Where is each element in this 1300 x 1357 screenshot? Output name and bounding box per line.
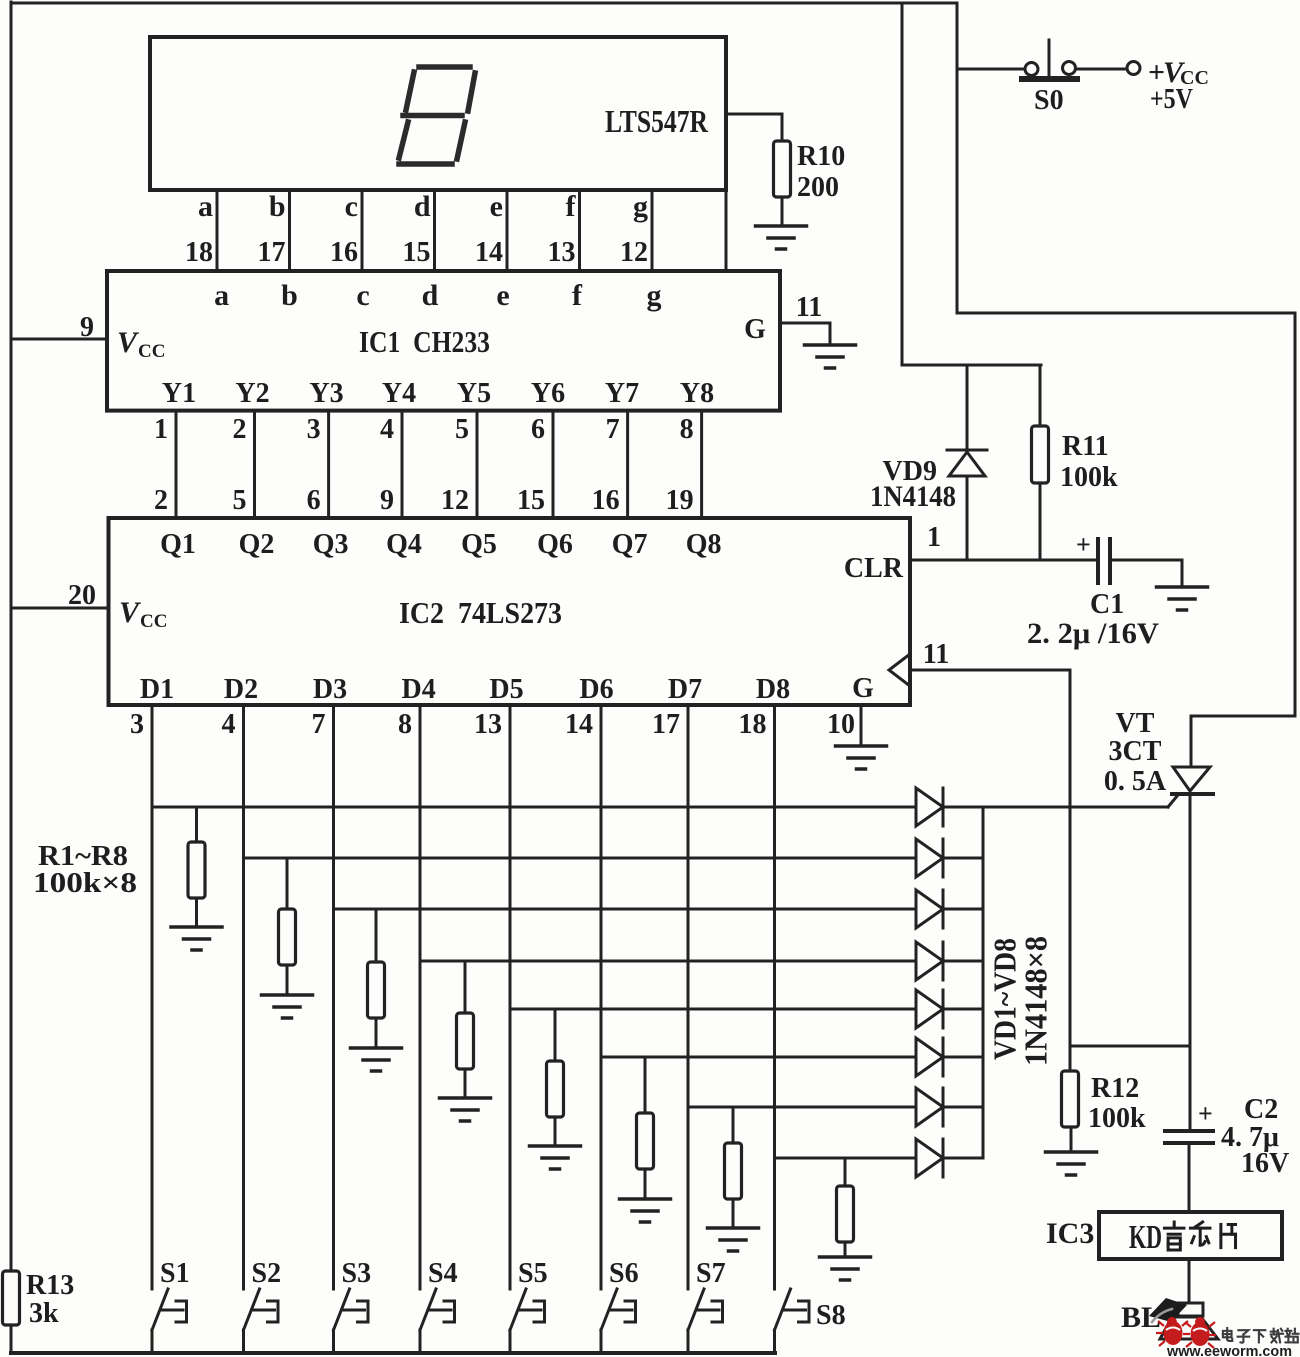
svg-text:g: g [633,190,648,223]
svg-text:Q8: Q8 [686,529,722,560]
wire D5 column [509,705,512,1289]
svg-text:+5V: +5V [1150,83,1193,115]
switch S5 [510,1289,545,1353]
svg-text:R11: R11 [1062,431,1109,462]
svg-text:G: G [852,673,874,704]
svg-text:Y3: Y3 [309,378,343,409]
wire VD8 cathode to bus [943,1157,983,1160]
wire IC2 CLR pin 1 [910,559,1098,562]
capacitor C1 2.2u/16V [1098,539,1182,587]
svg-text:15: 15 [403,237,431,268]
svg-text:d: d [414,190,431,223]
svg-text:13: 13 [548,237,576,268]
svg-text:19: 19 [666,485,694,516]
svg-text:CC: CC [138,341,165,362]
svg-text:V: V [117,326,140,359]
svg-text:S0: S0 [1034,85,1064,116]
op-amp U1 IC1 CH233 box [107,271,780,411]
svg-text:R10: R10 [797,141,845,172]
wire display pin g to IC1 [651,190,654,271]
svg-text:VT: VT [1116,708,1155,739]
resistor R11 100k [1032,365,1049,560]
wire R12 to cathode line [1070,1045,1189,1048]
svg-text:R12: R12 [1091,1073,1139,1104]
7-segment digit 8 [399,67,475,164]
wire VD4 cathode to bus [943,960,983,963]
svg-text:S6: S6 [609,1258,639,1289]
svg-text:16: 16 [330,237,358,268]
wire display pin b to IC1 [288,190,291,271]
wire display pin c to IC1 [361,190,364,271]
svg-text:IC1 CH233: IC1 CH233 [359,324,490,359]
7-segment display LTS547R [150,37,726,190]
svg-text:6: 6 [531,414,545,445]
svg-text:4: 4 [380,414,394,445]
terminal +Vcc [1127,62,1140,75]
transistor VT 3CT 0.5A thyristor [1168,767,1213,807]
watermark logo bugs [1156,1317,1216,1348]
svg-text:b: b [269,190,286,223]
wire VT cathode down to C2 [1189,794,1192,1131]
svg-text:D6: D6 [579,674,613,705]
switch S7 [688,1289,723,1353]
svg-text:R13: R13 [26,1270,74,1301]
wire display pin e to IC1 [506,190,509,271]
switch S6 [601,1289,636,1353]
resistor R12 100k [1062,1071,1079,1152]
ground (R2) [262,995,313,1018]
ground (C1) [1157,587,1208,610]
svg-text:3: 3 [130,709,144,740]
ground (R12) [1046,1152,1097,1175]
svg-text:D1: D1 [140,674,174,705]
svg-text:e: e [496,279,509,312]
IC2 74LS273 box [109,518,911,705]
svg-text:9: 9 [80,312,94,343]
svg-text:Q4: Q4 [386,529,422,560]
svg-text:13: 13 [474,709,502,740]
resistor R10 [726,114,791,226]
svg-text:Y8: Y8 [680,378,714,409]
svg-text:C1: C1 [1090,589,1124,620]
wire D8 column [773,705,776,1289]
wire Y5 to Q5 [476,411,479,518]
switch S4 [420,1289,455,1353]
wire display pin a to IC1 [216,190,219,271]
wire rail 6 to VD6 [601,1056,916,1059]
wire VD7 cathode to bus [943,1106,983,1109]
svg-text:CLR: CLR [844,553,904,584]
svg-text:S5: S5 [518,1258,548,1289]
svg-text:7: 7 [312,709,326,740]
ground (R10) [756,226,807,249]
resistor R13 3k [3,1271,20,1325]
svg-text:14: 14 [475,237,503,268]
wire display common pin [725,190,728,271]
capacitor C2 4.7u 16V [1165,1131,1213,1212]
svg-text:c: c [356,279,369,312]
switch S8 [775,1289,810,1353]
switch S3 [334,1289,369,1353]
svg-text:14: 14 [565,709,593,740]
switch S0 [957,40,1127,79]
svg-text:18: 18 [185,237,213,268]
wire VD6 cathode to bus [943,1056,983,1059]
wire Y8 to Q8 [700,411,703,518]
svg-text:+: + [1076,530,1091,559]
wire IC2 Vcc pin 20 [11,607,109,610]
svg-text:Y1: Y1 [162,378,196,409]
wire diode gate line [943,806,1168,809]
svg-text:12: 12 [441,485,469,516]
svg-text:0. 5A: 0. 5A [1104,766,1167,797]
svg-text:5: 5 [233,485,247,516]
diode VD1 [916,788,943,826]
svg-text:g: g [647,279,662,312]
wire VD5 cathode to bus [943,1008,983,1011]
wire IC1 G pin 11 [780,323,830,345]
wire IC2 pin 10 [860,705,863,746]
svg-text:9: 9 [380,485,394,516]
wire IC1 Vcc pin 9 [11,338,107,341]
svg-text:1N4148×8: 1N4148×8 [1018,936,1054,1066]
svg-text:D8: D8 [756,674,790,705]
switch S1 [152,1289,187,1353]
svg-text:f: f [566,190,577,223]
wire left supply border [10,2,13,1353]
ground (R6) [620,1199,671,1222]
diode VD4 [916,942,943,980]
ground (R4) [440,1098,491,1121]
wire VD3 cathode to bus [943,908,983,911]
wire rail 7 to VD7 [688,1106,916,1109]
resistor R1 [188,807,205,927]
svg-text:Q6: Q6 [537,529,573,560]
svg-text:c: c [345,190,358,223]
svg-text:11: 11 [796,292,822,323]
diode VD8 [916,1139,943,1177]
svg-text:3: 3 [307,414,321,445]
svg-text:V: V [119,596,142,629]
svg-text:S3: S3 [342,1258,372,1289]
svg-text:IC3: IC3 [1046,1217,1094,1250]
svg-text:Y2: Y2 [235,378,269,409]
diode VD3 [916,890,943,928]
wire rail 1 to VD1 [152,806,916,809]
svg-text:20: 20 [68,580,96,611]
wire Y6 to Q6 [552,411,555,518]
wire branch to reset network [902,3,1041,365]
svg-text:100k: 100k [1060,462,1118,493]
svg-text:3CT: 3CT [1109,736,1162,767]
wire D4 column [419,705,422,1289]
IC2 clock pin G triangle [889,654,910,686]
wire rail 8 to VD8 [775,1157,917,1160]
ground (R7) [708,1228,759,1251]
svg-text:a: a [198,190,213,223]
speaker BL [1149,1298,1218,1339]
resistor R5 [547,1009,564,1146]
svg-text:D2: D2 [224,674,258,705]
svg-text:f: f [572,279,583,312]
wire Y3 to Q3 [327,411,330,518]
svg-text:15: 15 [517,485,545,516]
svg-text:www.eeworm.com: www.eeworm.com [1166,1344,1292,1357]
svg-text:1N4148: 1N4148 [870,480,956,513]
svg-text:100k×8: 100k×8 [33,868,137,899]
svg-text:a: a [214,279,229,312]
diode VD7 [916,1088,943,1126]
svg-text:IC2 74LS273: IC2 74LS273 [399,595,562,630]
ground (R5) [530,1146,581,1169]
diode VD2 [916,839,943,877]
svg-text:4: 4 [222,709,236,740]
wire rail 2 to VD2 [244,857,917,860]
svg-text:S1: S1 [160,1258,190,1289]
svg-text:Q2: Q2 [239,529,275,560]
resistor R4 [457,961,474,1098]
svg-text:Y7: Y7 [605,378,639,409]
wire display pin f to IC1 [578,190,581,271]
wire VD2 cathode to bus [943,857,983,860]
ground (R8) [820,1257,871,1280]
resistor R8 [837,1158,854,1257]
svg-text:5: 5 [455,414,469,445]
wire D7 column [687,705,690,1289]
svg-text:1: 1 [154,414,168,445]
wire D2 column [242,705,245,1289]
svg-text:D5: D5 [489,674,523,705]
svg-text:2: 2 [154,485,168,516]
svg-text:S8: S8 [816,1300,846,1331]
svg-text:16V: 16V [1241,1148,1289,1179]
wire right power branch down to S0 net [957,3,1295,767]
wire top supply border [11,2,957,5]
svg-text:BL: BL [1121,1301,1161,1334]
svg-text:6: 6 [307,485,321,516]
svg-text:CC: CC [140,611,167,632]
svg-text:e: e [490,190,503,223]
wire IC2 pin 11 to R12 [910,670,1070,1072]
wire rail 4 to VD4 [420,960,916,963]
ground (IC2 pin 10) [836,746,887,769]
svg-text:17: 17 [258,237,286,268]
ground (IC1 pin 11) [805,345,856,368]
svg-text:17: 17 [652,709,680,740]
svg-text:S7: S7 [696,1258,726,1289]
resistor R6 [637,1057,654,1199]
svg-text:8: 8 [398,709,412,740]
svg-text:S4: S4 [428,1258,458,1289]
wire rail 5 to VD5 [510,1008,916,1011]
svg-text:D4: D4 [401,674,435,705]
ground (R3) [351,1048,402,1071]
svg-text:G: G [744,314,766,345]
svg-text:200: 200 [797,172,839,203]
svg-text:LTS547R: LTS547R [605,103,709,139]
svg-text:12: 12 [620,237,648,268]
svg-text:Y5: Y5 [457,378,491,409]
svg-text:KD: KD [1129,1219,1162,1256]
svg-text:Q1: Q1 [160,529,196,560]
IC3 music chip box [1099,1212,1282,1259]
wire bottom common bus [11,1351,775,1355]
svg-text:1: 1 [927,522,941,553]
wire D3 column [332,705,335,1289]
wire Y4 to Q4 [401,411,404,518]
resistor R3 [368,909,385,1048]
wire Y7 to Q7 [626,411,629,518]
svg-text:100k: 100k [1088,1103,1146,1134]
svg-text:2. 2μ /16V: 2. 2μ /16V [1027,617,1159,650]
wire D1 column [151,705,154,1289]
svg-text:Q5: Q5 [461,529,497,560]
svg-text:Q7: Q7 [612,529,648,560]
diode VD5 [916,990,943,1028]
svg-text:Y6: Y6 [531,378,565,409]
wire D6 column [600,705,603,1289]
svg-text:D3: D3 [313,674,347,705]
wire diode cathode bus [982,807,985,1158]
diode VD6 [916,1038,943,1076]
wire rail 3 to VD3 [334,908,917,911]
svg-text:16: 16 [592,485,620,516]
svg-text:8: 8 [680,414,694,445]
wire IC3 to speaker [1188,1259,1191,1303]
label KD music chip CJK [1164,1222,1184,1250]
svg-text:2: 2 [233,414,247,445]
wire Y1 to Q1 [175,411,178,518]
diode VD9 1N4148 [947,365,987,560]
svg-text:11: 11 [923,639,949,670]
resistor R7 [725,1107,742,1228]
svg-text:C2: C2 [1244,1094,1278,1125]
wire display pin d to IC1 [433,190,436,271]
svg-text:10: 10 [827,709,855,740]
svg-text:S2: S2 [252,1258,282,1289]
switch S2 [244,1289,279,1353]
svg-text:7: 7 [606,414,620,445]
svg-text:b: b [281,279,298,312]
svg-text:Q3: Q3 [313,529,349,560]
svg-text:d: d [422,279,439,312]
wire Y2 to Q2 [253,411,256,518]
svg-text:D7: D7 [668,674,702,705]
svg-text:Y4: Y4 [382,378,416,409]
resistor R2 [279,858,296,995]
ground (R1) [171,927,222,950]
svg-text:3k: 3k [29,1298,59,1329]
svg-text:+: + [1198,1099,1213,1128]
svg-text:18: 18 [739,709,767,740]
watermark site name CJK [1223,1328,1232,1341]
